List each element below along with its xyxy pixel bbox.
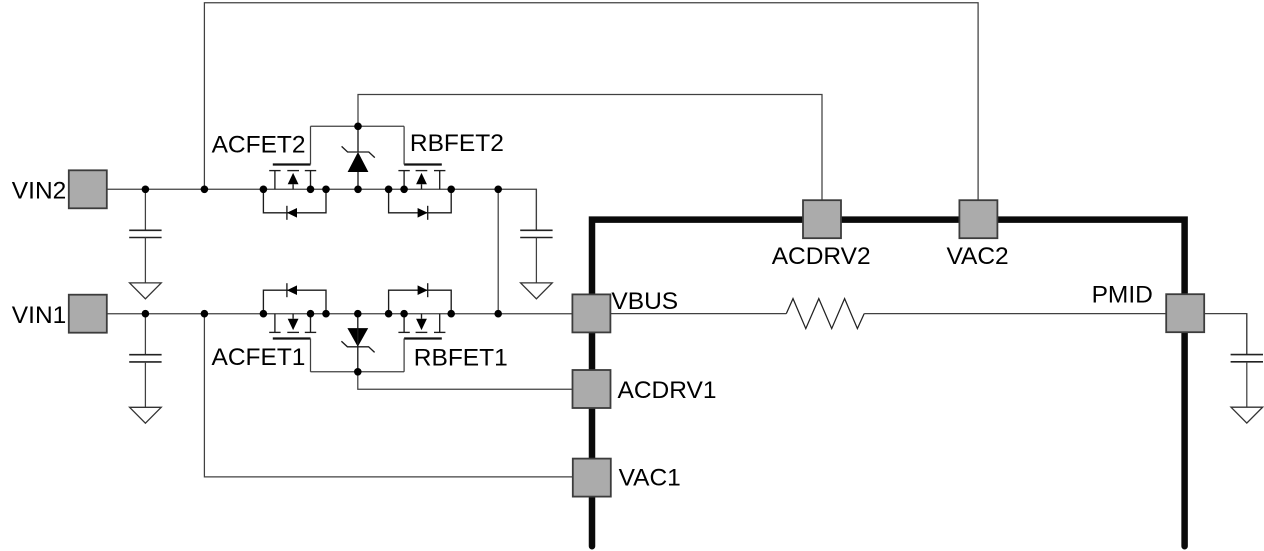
pin VAC2 xyxy=(959,200,997,238)
capacitor C4 (PMID bypass) xyxy=(1231,314,1263,408)
svg-text:VAC1: VAC1 xyxy=(619,464,681,491)
ground below capacitor C2 (VIN1 bypass) xyxy=(130,407,162,423)
svg-text:VIN2: VIN2 xyxy=(12,177,66,204)
junction dot FET2 gate node xyxy=(354,123,362,131)
wire joining row1 and row2 outputs xyxy=(497,189,499,313)
label PMID xyxy=(1092,281,1153,308)
junction dot FET1 gate node xyxy=(354,368,362,376)
label ACDRV2 xyxy=(772,243,871,270)
junction dot row1 at top-wire branch xyxy=(201,186,209,194)
svg-text:ACDRV2: ACDRV2 xyxy=(772,243,871,270)
junction dots at ACFET2 terminals xyxy=(260,186,330,194)
wire FET1 gate node line xyxy=(311,371,405,373)
junction dot row1 at C1 tap xyxy=(142,186,150,194)
wire FET2 gate node line xyxy=(311,125,405,127)
zener diode D1 (FET1 gate clamp) xyxy=(341,314,374,372)
wire from VIN2 node up and across to VAC2 xyxy=(204,3,978,200)
junction dot row2 at zener D1 cathode xyxy=(354,310,362,318)
capacitor C3 (FET2 output bypass) xyxy=(520,189,552,283)
label RBFET1 xyxy=(414,344,508,371)
svg-text:PMID: PMID xyxy=(1092,281,1153,308)
junction dot row2 at VAC1 branch xyxy=(201,310,209,318)
svg-text:RBFET2: RBFET2 xyxy=(410,130,504,157)
pin VAC1 xyxy=(573,459,611,497)
transistor RBFET1 xyxy=(389,283,452,372)
svg-text:VAC2: VAC2 xyxy=(947,243,1009,270)
svg-text:VBUS: VBUS xyxy=(611,288,678,315)
wire FET1 gate node to ACDRV1 xyxy=(358,372,573,389)
transistor ACFET2 xyxy=(263,126,326,220)
label VIN2 xyxy=(12,177,66,204)
label VAC2 xyxy=(947,243,1009,270)
pin ACDRV1 xyxy=(573,370,611,408)
svg-text:VIN1: VIN1 xyxy=(12,302,66,329)
label ACFET2 xyxy=(212,132,306,159)
ground below capacitor C1 (VIN2 bypass) xyxy=(130,283,162,299)
svg-text:ACFET2: ACFET2 xyxy=(212,132,306,159)
pin VIN2 xyxy=(69,170,107,208)
wire VBUS to resistor (left) xyxy=(610,313,786,315)
ground below capacitor C4 (PMID bypass) xyxy=(1231,407,1263,423)
junction dots at RBFET1 terminals xyxy=(385,310,455,318)
junction dot row1 at zener D2 anode xyxy=(354,186,362,194)
resistor between VBUS and PMID xyxy=(786,299,864,329)
pin VBUS xyxy=(572,294,610,332)
capacitor C2 (VIN1 bypass) xyxy=(129,314,161,408)
wire VIN1 row to VBUS pin xyxy=(107,313,573,315)
svg-text:ACFET1: ACFET1 xyxy=(212,344,306,371)
wire resistor to PMID (right) xyxy=(864,313,1166,315)
label ACFET1 xyxy=(212,344,306,371)
junction dot row2 at C2 tap xyxy=(142,310,150,318)
label ACDRV1 xyxy=(618,377,717,404)
label VAC1 xyxy=(619,464,681,491)
pin ACDRV2 xyxy=(803,200,841,238)
label VBUS xyxy=(611,288,678,315)
junction dot row1 at row-join xyxy=(494,186,502,194)
wire from FET2 gate node up and across to ACDRV2 xyxy=(358,95,822,201)
wire VIN1 node down and across to VAC1 xyxy=(204,314,572,477)
thick VBUS bus wire (VBUS-ACDRV2-VAC2-PMID rail) xyxy=(592,220,1185,547)
svg-text:RBFET1: RBFET1 xyxy=(414,344,508,371)
wire VIN2 row (node to FETs to bypass cap corner) xyxy=(107,189,537,229)
label VIN1 xyxy=(12,302,66,329)
transistor ACFET1 xyxy=(263,283,326,372)
junction dots at ACFET1 terminals xyxy=(260,310,330,318)
label RBFET2 xyxy=(410,130,504,157)
pin PMID xyxy=(1166,294,1204,332)
junction dot row2 at row-join xyxy=(494,310,502,318)
zener diode D2 (FET2 gate clamp) xyxy=(342,126,375,189)
ground below capacitor C3 (FET2 output bypass) xyxy=(521,283,553,299)
junction dots at RBFET2 terminals xyxy=(385,186,455,194)
wire PMID to output cap xyxy=(1204,314,1247,354)
transistor RBFET2 xyxy=(389,126,452,220)
capacitor C1 (VIN2 bypass) xyxy=(129,189,161,283)
pin VIN1 xyxy=(69,295,107,333)
svg-text:ACDRV1: ACDRV1 xyxy=(618,377,717,404)
